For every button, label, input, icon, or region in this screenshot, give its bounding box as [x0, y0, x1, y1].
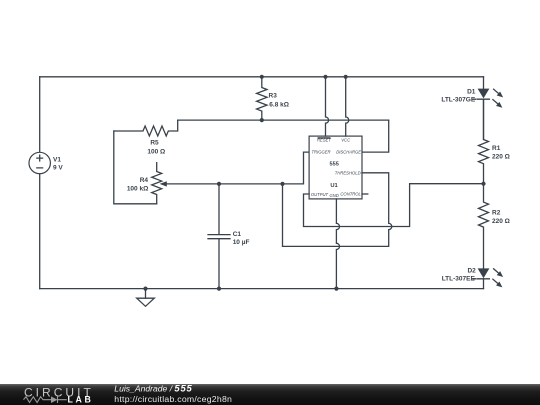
- resistor R2: [479, 184, 489, 269]
- ground: [137, 289, 155, 307]
- LED D1: [473, 77, 489, 140]
- svg-text:555: 555: [174, 383, 192, 394]
- svg-text:555: 555: [330, 161, 339, 167]
- svg-text:DISCHARGE: DISCHARGE: [336, 149, 361, 154]
- svg-text:LTL-307EE: LTL-307EE: [442, 276, 476, 283]
- pin CONTROL stub: [362, 193, 368, 195]
- wire threshold net: [283, 173, 392, 247]
- resistor R1: [479, 99, 489, 184]
- node dot ground: [143, 287, 147, 291]
- wire GND pin: [336, 199, 339, 289]
- node dot R3 bottom: [260, 118, 264, 122]
- svg-text:220 Ω: 220 Ω: [492, 154, 510, 161]
- node dot RESET rail: [323, 75, 327, 79]
- svg-text:10 µF: 10 µF: [233, 239, 250, 246]
- label R4 100 kOhm: [127, 177, 149, 193]
- LED D2 emission arrows: [493, 269, 503, 288]
- footer bar: [0, 384, 540, 405]
- wire top rail: [40, 76, 484, 78]
- svg-text:100 Ω: 100 Ω: [147, 149, 165, 156]
- label R1 220 Ohm: [492, 145, 510, 161]
- svg-text:CONTROL: CONTROL: [340, 191, 361, 196]
- LED D1 emission arrows: [493, 89, 503, 108]
- wire output net: [304, 184, 484, 227]
- wire left rail upper: [39, 77, 41, 153]
- wire R5 to R4 bottom: [114, 131, 157, 204]
- svg-text:C1: C1: [233, 231, 242, 238]
- label R2 220 Ohm: [492, 209, 510, 225]
- LED D2: [473, 268, 489, 288]
- label R5 100 Ohm: [147, 139, 165, 155]
- node dot output junction: [481, 182, 485, 186]
- pin label RESET: [317, 137, 331, 142]
- capacitor C1: [208, 184, 230, 289]
- svg-text:6.8 kΩ: 6.8 kΩ: [269, 102, 289, 109]
- potentiometer R4: [152, 163, 167, 204]
- wire discharge net y=120 with hops: [178, 119, 389, 121]
- svg-text:THRESHOLD: THRESHOLD: [335, 170, 361, 175]
- svg-text:9 V: 9 V: [53, 165, 63, 172]
- node dot C1 bottom: [217, 287, 221, 291]
- wire bottom rail: [40, 288, 484, 290]
- svg-text:TRIGGER: TRIGGER: [312, 149, 331, 154]
- op-amp/IC U1 555 box: [309, 136, 362, 199]
- wire R4 wiper to trigger: [166, 152, 309, 184]
- node dot R3 top: [260, 75, 264, 79]
- label C1 10 uF: [233, 231, 250, 246]
- svg-text:R3: R3: [269, 93, 278, 100]
- svg-text:R2: R2: [492, 209, 501, 216]
- svg-text:VCC: VCC: [341, 138, 351, 143]
- svg-text:D1: D1: [467, 88, 476, 95]
- node dot C1 top branch: [217, 182, 221, 186]
- svg-text:LTL-307GE: LTL-307GE: [441, 97, 475, 104]
- label V1 9 V: [53, 156, 63, 171]
- voltage source V1: [29, 152, 50, 173]
- svg-text:GND: GND: [329, 193, 338, 198]
- svg-text:LAB: LAB: [68, 395, 91, 405]
- svg-text:R5: R5: [150, 139, 159, 146]
- svg-text:U1: U1: [330, 183, 338, 189]
- label D2 LTL-307EE: [442, 267, 476, 282]
- svg-text:220 Ω: 220 Ω: [492, 218, 510, 225]
- node dot VCC rail: [344, 75, 348, 79]
- node dot threshold branch: [280, 182, 284, 186]
- node dot GND rail: [334, 287, 338, 291]
- svg-text:100 kΩ: 100 kΩ: [127, 186, 148, 193]
- logo resistor squiggle and diode: [24, 396, 67, 403]
- label R3 6.8 kOhm: [269, 93, 289, 109]
- svg-text:OUTPUT: OUTPUT: [311, 192, 329, 197]
- svg-text:Luis_Andrade /: Luis_Andrade /: [114, 384, 173, 394]
- resistor R3: [257, 77, 267, 120]
- wire left rail lower: [39, 174, 41, 289]
- svg-text:http://circuitlab.com/ceg2h8n: http://circuitlab.com/ceg2h8n: [114, 394, 232, 404]
- footer title Luis_Andrade / 555: [114, 383, 192, 394]
- svg-text:R1: R1: [492, 145, 501, 152]
- resistor R5: [114, 120, 178, 136]
- label D1 LTL-307GE: [441, 88, 475, 103]
- pin VCC wire: [346, 77, 349, 136]
- wire discharge drop: [362, 120, 389, 152]
- pin RESET wire: [326, 77, 329, 136]
- svg-text:R4: R4: [140, 177, 149, 184]
- svg-text:V1: V1: [53, 156, 61, 163]
- svg-text:D2: D2: [467, 267, 476, 274]
